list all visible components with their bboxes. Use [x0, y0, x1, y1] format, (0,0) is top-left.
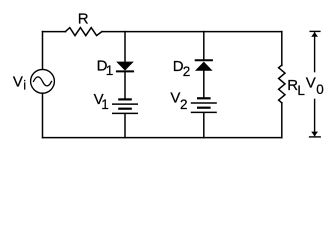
- resistor R: [65, 28, 102, 36]
- wire branch2 upper: [203, 32, 205, 61]
- wire bottom: [43, 137, 282, 139]
- wire branch2 middle: [203, 71, 205, 99]
- wire branch1 upper: [124, 32, 126, 62]
- battery V1: [112, 99, 138, 113]
- battery V2: [191, 98, 217, 112]
- wire branch1 middle: [124, 71, 126, 99]
- wire branch1 lower: [124, 114, 126, 138]
- wire left upper: [42, 32, 44, 70]
- svg-text:1: 1: [106, 63, 114, 78]
- svg-text:i: i: [23, 78, 26, 93]
- svg-text:L: L: [297, 83, 305, 98]
- svg-text:V: V: [13, 73, 23, 90]
- svg-text:0: 0: [316, 82, 324, 97]
- wire top middle segment: [103, 31, 282, 33]
- diode D2: [195, 60, 213, 71]
- svg-text:1: 1: [101, 97, 109, 112]
- wire right lower: [281, 103, 283, 138]
- output arrow V0: [309, 31, 321, 136]
- wire branch2 lower: [203, 113, 205, 138]
- resistor RL: [279, 65, 285, 103]
- voltage source Vi: [31, 69, 55, 93]
- svg-text:2: 2: [183, 64, 191, 79]
- wire right upper: [281, 32, 283, 66]
- wire left lower: [42, 93, 44, 137]
- svg-text:2: 2: [180, 97, 188, 112]
- svg-text:R: R: [78, 11, 89, 28]
- svg-text:V: V: [306, 74, 316, 91]
- wire top-left segment: [43, 31, 66, 33]
- diode D1: [116, 62, 134, 72]
- svg-text:V: V: [170, 90, 180, 107]
